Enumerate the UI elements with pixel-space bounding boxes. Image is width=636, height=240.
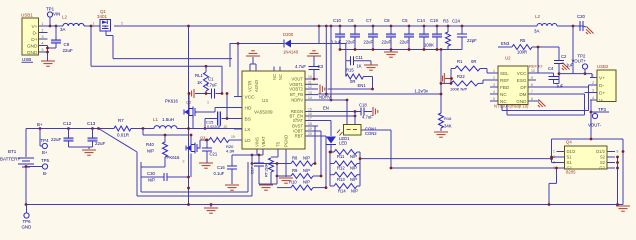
- svg-text:19: 19: [308, 127, 312, 131]
- svg-text:DM: DM: [519, 92, 526, 97]
- capacitor C24: [461, 25, 464, 28]
- svg-text:L2: L2: [62, 15, 68, 20]
- svg-text:22uF: 22uF: [364, 40, 374, 45]
- diode D200 1N4148: [285, 40, 292, 48]
- capacitor C8: [390, 25, 393, 28]
- ground PGND: [279, 177, 293, 179]
- svg-text:VOUT+: VOUT+: [572, 59, 587, 64]
- svg-text:B+: B+: [37, 122, 43, 127]
- wire LD to Q3 gate: [200, 139, 207, 141]
- ground battery caps: [82, 149, 96, 151]
- svg-text:N/P: N/P: [303, 180, 310, 185]
- svg-text:Q4: Q4: [566, 140, 572, 145]
- capacitor C13: [92, 129, 94, 139]
- wire TP1 to VIN rail: [49, 17, 51, 26]
- ground R22 sideways: [445, 78, 452, 80]
- resistor R13 NP: [334, 172, 357, 177]
- svg-text:100K N/P: 100K N/P: [450, 87, 467, 92]
- ground C20 diagonal: [583, 26, 586, 27]
- svg-text:2: 2: [592, 81, 594, 85]
- capacitor C15 bootstrap: [222, 118, 243, 120]
- wire feedback vertical: [440, 50, 442, 114]
- capacitor C20: [580, 25, 583, 27]
- wire CON to Q4 branch: [361, 129, 391, 131]
- svg-text:14: 14: [308, 96, 312, 100]
- wire farm left bus: [276, 164, 278, 185]
- svg-text:NT600R(msop 10): NT600R(msop 10): [494, 104, 529, 109]
- svg-text:13: 13: [308, 91, 312, 95]
- svg-text:VINS: VINS: [255, 137, 260, 147]
- svg-text:S1: S1: [567, 155, 573, 160]
- resistor R10 NP: [291, 185, 313, 190]
- svg-text:4.7uF: 4.7uF: [206, 83, 217, 88]
- svg-text:USB1: USB1: [21, 13, 33, 18]
- resistor R22 100K NP: [441, 82, 451, 84]
- ground VOBT2 sideways: [319, 85, 321, 94]
- svg-text:B+: B+: [42, 150, 48, 155]
- svg-text:3A: 3A: [60, 27, 66, 32]
- wire divider verticals: [325, 25, 328, 28]
- svg-text:C2: C2: [561, 54, 567, 59]
- ground bottom right: [616, 205, 630, 207]
- svg-text:3: 3: [592, 89, 594, 93]
- svg-text:10: 10: [308, 75, 312, 79]
- wire VIN top rail: [39, 25, 64, 27]
- svg-text:C12: C12: [63, 121, 72, 126]
- svg-text:18: 18: [308, 122, 312, 126]
- wire U3 right pin stubs: [305, 78, 318, 80]
- svg-text:R13: R13: [337, 177, 345, 182]
- svg-text:CON2: CON2: [365, 131, 377, 136]
- svg-text:D200: D200: [283, 32, 294, 37]
- svg-text:2: 2: [121, 22, 123, 26]
- svg-text:D1/2: D1/2: [567, 149, 577, 154]
- svg-text:1.5uH: 1.5uH: [162, 117, 174, 122]
- svg-text:3: 3: [493, 83, 495, 87]
- svg-text:C5: C5: [402, 18, 408, 23]
- svg-text:16: 16: [308, 112, 312, 116]
- wire HD to Q2 gate: [198, 111, 215, 113]
- test point TP3: [592, 113, 597, 118]
- svg-text:TP3: TP3: [598, 107, 606, 112]
- wire farm right bus: [329, 152, 331, 186]
- svg-text:17: 17: [308, 117, 312, 121]
- svg-text:4.7uF: 4.7uF: [362, 115, 373, 120]
- svg-text:R12: R12: [337, 166, 345, 171]
- capacitor C7: [372, 25, 375, 28]
- LED LED1: [318, 120, 331, 122]
- wire U2 DF DM routing: [536, 86, 589, 88]
- svg-text:0R: 0R: [350, 79, 355, 84]
- wire Q4 left bus: [551, 139, 553, 163]
- resistor R11 NP: [330, 151, 333, 154]
- svg-text:1K: 1K: [197, 80, 202, 85]
- wire bottom loop inner: [140, 162, 142, 192]
- capacitor C30 NP: [146, 176, 164, 178]
- svg-text:0.1uF: 0.1uF: [214, 171, 225, 176]
- svg-text:NC: NC: [278, 74, 283, 80]
- svg-text:D-: D-: [599, 83, 604, 89]
- wire VOUT- top loop: [552, 138, 624, 140]
- svg-text:C24: C24: [452, 19, 460, 24]
- svg-text:4: 4: [592, 96, 594, 100]
- capacitor C18 REGN: [318, 111, 361, 113]
- svg-text:R16: R16: [444, 116, 452, 121]
- svg-text:S2: S2: [600, 160, 606, 165]
- svg-text:22uF: 22uF: [382, 40, 392, 45]
- svg-text:VOUT-: VOUT-: [588, 123, 602, 128]
- svg-text:1uF: 1uF: [556, 84, 564, 89]
- svg-text:Q3: Q3: [200, 135, 206, 140]
- wire BT_EN to CON: [318, 115, 355, 117]
- svg-text:V+: V+: [31, 24, 37, 30]
- wire Q1 source down: [105, 31, 107, 36]
- wire R5 to U2 VCC: [537, 47, 539, 73]
- svg-text:N/P: N/P: [350, 154, 357, 159]
- svg-text:1: 1: [93, 22, 95, 26]
- svg-text:ESG: ESG: [517, 78, 527, 83]
- svg-text:D1/2: D1/2: [596, 149, 606, 154]
- svg-text:1N4148: 1N4148: [283, 50, 299, 55]
- ground C18 sideways: [372, 107, 374, 116]
- inductor L2: [63, 23, 84, 26]
- wire main vertical bus x188: [188, 26, 190, 205]
- node output: [572, 25, 575, 28]
- svg-text:V-: V-: [599, 98, 604, 104]
- svg-text:R5: R5: [520, 38, 526, 43]
- svg-text:EN: EN: [323, 106, 329, 111]
- svg-text:BS: BS: [245, 116, 251, 122]
- capacitor C1: [221, 66, 223, 93]
- svg-text:GND: GND: [27, 50, 38, 56]
- svg-text:100K: 100K: [424, 43, 434, 48]
- wire VOUT+ to USB2: [559, 73, 592, 75]
- wire Q4 left stubs: [557, 151, 565, 153]
- svg-text:0.01R: 0.01R: [117, 133, 130, 138]
- svg-text:LD: LD: [245, 138, 252, 144]
- svg-text:R40: R40: [146, 142, 154, 147]
- svg-text:GND: GND: [27, 43, 38, 49]
- wire EN1 net: [328, 88, 373, 90]
- svg-text:1: 1: [553, 150, 555, 154]
- svg-text:VCC: VCC: [245, 94, 256, 100]
- svg-text:C11: C11: [356, 55, 364, 60]
- svg-text:1: 1: [207, 101, 209, 105]
- svg-text:S2: S2: [600, 155, 606, 160]
- ground C16: [225, 184, 239, 186]
- resistor R1 0R: [450, 69, 452, 84]
- wire U3 left pin stubs: [234, 96, 242, 98]
- wire Q3 drain: [190, 135, 192, 145]
- svg-text:4.7uF: 4.7uF: [295, 64, 306, 69]
- svg-text:TP5: TP5: [41, 158, 50, 163]
- inductor L1: [154, 126, 177, 129]
- svg-text:NDRV: NDRV: [291, 98, 303, 103]
- svg-text:NDRV: NDRV: [319, 95, 331, 100]
- thermistor RT 150K: [277, 155, 279, 157]
- wire Q4 G1 branch: [556, 168, 558, 183]
- resistor R15: [345, 61, 347, 77]
- svg-text:USB: USB: [22, 57, 31, 62]
- node VIN distribution junction: [187, 25, 190, 28]
- ground AGND inverted: [251, 50, 255, 52]
- svg-text:BT_FB: BT_FB: [290, 92, 303, 97]
- svg-text:VA55209: VA55209: [254, 110, 273, 115]
- svg-text:D+: D+: [31, 37, 37, 43]
- svg-text:STAT: STAT: [293, 118, 304, 123]
- svg-text:D-: D-: [32, 30, 37, 36]
- ground R16: [434, 131, 448, 133]
- wire U2 left stubs: [490, 72, 498, 74]
- svg-text:PK616: PK616: [165, 99, 179, 104]
- test point TP5: [42, 164, 47, 169]
- svg-text:U2: U2: [505, 56, 511, 61]
- svg-text:LX: LX: [245, 127, 252, 133]
- wire Q4 right stubs: [607, 151, 615, 153]
- svg-text:S1: S1: [567, 160, 573, 165]
- svg-text:C19: C19: [430, 18, 438, 23]
- resistor RL1: [204, 72, 209, 91]
- svg-text:R9: R9: [292, 168, 298, 173]
- capacitor C3 with inverted ground: [312, 50, 316, 52]
- svg-text:L2: L2: [535, 14, 541, 19]
- svg-text:3401: 3401: [97, 14, 108, 19]
- svg-text:22pF: 22pF: [467, 38, 477, 43]
- wire farm to Q4 S1: [360, 158, 552, 160]
- svg-text:SEL: SEL: [500, 71, 509, 76]
- test point TP6: [24, 213, 29, 218]
- ground output sideways: [559, 62, 569, 72]
- wire CON branch to Q4: [391, 167, 557, 169]
- svg-text:C18: C18: [359, 103, 367, 108]
- svg-text:LED: LED: [339, 141, 347, 146]
- wire snubber top: [296, 43, 346, 45]
- svg-text:AGND: AGND: [254, 80, 259, 92]
- svg-text:20: 20: [308, 132, 312, 136]
- battery BT1: [25, 129, 27, 158]
- svg-text:C4: C4: [548, 66, 554, 71]
- inductor L3: [537, 24, 557, 26]
- svg-text:PK616: PK616: [167, 155, 181, 160]
- svg-text:R1: R1: [457, 59, 463, 64]
- op-amp U3 VA55209 charger IC: [242, 71, 305, 149]
- svg-text:22uF: 22uF: [51, 137, 62, 142]
- resistor R20 4.3R: [209, 138, 229, 143]
- svg-text:N/P: N/P: [350, 166, 357, 171]
- svg-text:1.2v/3v: 1.2v/3v: [415, 89, 429, 94]
- resistor R7 current sense: [114, 126, 131, 131]
- wire USB2 D+ link: [585, 92, 591, 94]
- svg-text:TP6: TP6: [23, 219, 32, 224]
- svg-text:34K: 34K: [444, 124, 452, 129]
- svg-text:22uF: 22uF: [63, 48, 74, 53]
- svg-text:R7: R7: [118, 118, 124, 123]
- capacitor C14: [423, 25, 426, 28]
- svg-text:1: 1: [592, 74, 594, 78]
- resistor R3: [447, 25, 450, 28]
- svg-text:6: 6: [531, 97, 533, 101]
- wire USB1 pin stubs: [39, 25, 48, 27]
- svg-text:D+: D+: [599, 90, 605, 96]
- svg-text:PGND: PGND: [284, 135, 289, 147]
- svg-text:N/P: N/P: [303, 168, 310, 173]
- wire C12 C13 ground link: [69, 146, 93, 148]
- wire Q2 drain up: [188, 94, 190, 109]
- svg-text:11: 11: [308, 81, 312, 85]
- svg-text:N/P: N/P: [148, 178, 155, 183]
- wire BVST IOBT RBT branches: [315, 125, 318, 127]
- svg-text:100R: 100R: [517, 50, 527, 55]
- wire bottom ground rail: [26, 204, 623, 206]
- ground AGND sideways at C1: [193, 89, 195, 98]
- resistor R16 34K: [439, 113, 444, 128]
- svg-text:R3: R3: [443, 19, 449, 24]
- svg-text:VCC: VCC: [517, 71, 527, 76]
- wire U2 right stubs: [528, 72, 536, 74]
- wire Q2 rail to D200: [229, 43, 231, 67]
- wire U3 bottom pin stubs: [256, 149, 258, 155]
- svg-text:C20: C20: [577, 14, 585, 19]
- transistor Q4 8205: [565, 146, 608, 169]
- wire Q3 source: [190, 154, 192, 178]
- wire cap bank bottom rail: [340, 49, 462, 51]
- wire Q1 source rail y58: [113, 58, 232, 60]
- wire BT_FB 1.2v net: [318, 93, 441, 95]
- svg-text:REF IO: REF IO: [529, 64, 542, 69]
- svg-text:L1: L1: [153, 117, 159, 122]
- capacitor C16: [232, 154, 263, 156]
- svg-text:C30: C30: [147, 171, 155, 176]
- svg-text:BT1: BT1: [8, 149, 17, 154]
- svg-text:C15: C15: [206, 120, 214, 125]
- ground bottom mid: [210, 205, 212, 208]
- test point TP4: [39, 129, 41, 147]
- connector USB2: [597, 70, 616, 102]
- svg-text:12: 12: [308, 85, 312, 89]
- capacitor C19: [436, 25, 439, 28]
- svg-text:C1: C1: [208, 77, 214, 82]
- test point TP1: [47, 12, 52, 17]
- svg-text:NC: NC: [500, 92, 507, 97]
- connector USB1: [22, 18, 39, 55]
- resistor R5 100R: [512, 45, 532, 50]
- svg-text:V+: V+: [599, 75, 605, 81]
- svg-text:NC: NC: [272, 74, 277, 80]
- ground U2 GND: [536, 100, 539, 102]
- svg-text:TS: TS: [276, 141, 281, 147]
- svg-text:4.3R: 4.3R: [226, 149, 235, 154]
- svg-text:1: 1: [493, 69, 495, 73]
- capacitor C9: [55, 26, 57, 40]
- svg-text:C3: C3: [318, 64, 324, 69]
- svg-text:15: 15: [308, 108, 312, 112]
- resistor R40: [142, 129, 144, 136]
- svg-text:8: 8: [617, 150, 619, 154]
- svg-text:19: 19: [231, 135, 235, 139]
- ground TS: [259, 184, 273, 186]
- svg-text:N/P: N/P: [303, 156, 310, 161]
- test point TP2: [582, 64, 587, 69]
- svg-text:22uF: 22uF: [95, 141, 106, 146]
- wire output vertical: [572, 26, 574, 74]
- wire PGND: [285, 155, 287, 177]
- svg-text:7: 7: [531, 90, 533, 94]
- svg-text:R8: R8: [292, 156, 298, 161]
- resistor R14 NP: [334, 184, 357, 189]
- svg-text:GND: GND: [22, 225, 32, 230]
- svg-text:RT150K: RT150K: [265, 163, 269, 177]
- wire sense diagonal: [97, 127, 100, 130]
- svg-text:9: 9: [531, 76, 533, 80]
- ground C21: [199, 162, 213, 164]
- capacitor C2: [558, 47, 560, 61]
- svg-text:REF: REF: [500, 78, 509, 83]
- svg-text:C21: C21: [210, 152, 218, 157]
- svg-text:C6: C6: [348, 18, 354, 23]
- svg-text:C9: C9: [64, 42, 70, 47]
- ground USB1: [41, 60, 55, 62]
- svg-text:C16: C16: [217, 165, 225, 170]
- svg-text:VOBT2: VOBT2: [289, 87, 303, 92]
- svg-text:RL1: RL1: [195, 73, 203, 78]
- svg-text:VIN: VIN: [53, 12, 60, 17]
- svg-text:R14: R14: [338, 189, 346, 194]
- svg-text:C13: C13: [87, 121, 96, 126]
- svg-text:C17: C17: [251, 167, 255, 174]
- svg-text:RBT: RBT: [295, 134, 304, 139]
- capacitor C21: [206, 140, 208, 148]
- wire USB ground branch: [47, 46, 49, 61]
- svg-text:0R: 0R: [471, 59, 476, 64]
- svg-text:B-: B-: [43, 171, 48, 176]
- svg-text:5: 5: [493, 97, 495, 101]
- wire VIN branch x91: [90, 25, 93, 28]
- svg-text:HD: HD: [245, 105, 252, 111]
- svg-text:3A: 3A: [534, 29, 540, 34]
- capacitor C17: [258, 155, 260, 163]
- svg-text:2: 2: [493, 76, 495, 80]
- wire Q4 right bus: [617, 157, 619, 205]
- capacitor C6: [354, 25, 357, 28]
- capacitor C10: [339, 25, 342, 28]
- op-amp U2 NT600R: [498, 66, 528, 105]
- svg-text:N/P: N/P: [147, 149, 154, 154]
- svg-text:G1: G1: [567, 166, 573, 171]
- resistor R9 NP: [291, 174, 313, 179]
- node feedback: [440, 48, 443, 51]
- svg-text:8: 8: [531, 83, 533, 87]
- node VIN junction: [49, 25, 52, 28]
- capacitor C12: [68, 129, 70, 139]
- capacitor C4: [536, 72, 554, 74]
- wire D200 to rail: [291, 43, 296, 45]
- svg-text:VBAT: VBAT: [261, 136, 266, 147]
- wire NDRV net: [318, 99, 347, 101]
- svg-text:C8: C8: [384, 18, 390, 23]
- capacitor C5: [408, 25, 411, 28]
- svg-text:22uF: 22uF: [400, 40, 410, 45]
- svg-text:FBD: FBD: [500, 85, 510, 90]
- wire B+ rail: [26, 128, 114, 130]
- svg-text:USB2: USB2: [597, 64, 609, 69]
- svg-text:VOUT: VOUT: [291, 77, 303, 82]
- svg-text:G2: G2: [599, 166, 605, 171]
- svg-text:TP4: TP4: [41, 138, 50, 143]
- svg-text:2: 2: [183, 160, 185, 164]
- svg-text:R15: R15: [346, 68, 354, 73]
- svg-text:4: 4: [493, 90, 495, 94]
- ground cap bank: [390, 50, 392, 52]
